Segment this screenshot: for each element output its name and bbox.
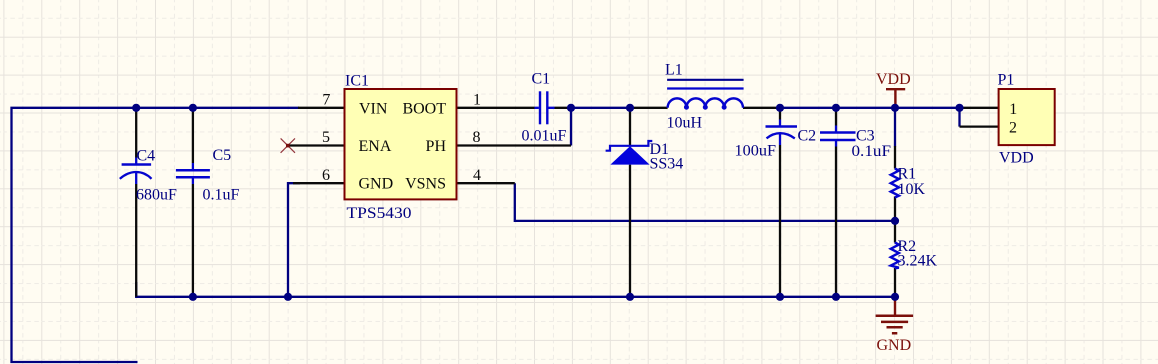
svg-text:C2: C2 — [798, 128, 817, 145]
junction GND symbol node — [891, 293, 899, 301]
svg-text:VSNS: VSNS — [405, 176, 446, 193]
svg-text:8: 8 — [473, 129, 481, 146]
svg-text:6: 6 — [322, 167, 330, 184]
junction D1 bottom — [626, 293, 634, 301]
pin 6 GND pin line — [293, 182, 345, 184]
capacitor C2 polarized — [735, 120, 817, 160]
junction D1 top — [626, 104, 634, 112]
pin C3 bottom lead — [835, 147, 837, 297]
capacitor C4 polarized — [120, 148, 177, 204]
junction GND branch bottom — [284, 293, 292, 301]
pin P1 pin2 line — [960, 126, 999, 128]
svg-text:C5: C5 — [213, 147, 232, 164]
svg-text:4: 4 — [473, 167, 481, 184]
svg-text:7: 7 — [322, 91, 330, 108]
svg-text:3.24K: 3.24K — [898, 253, 938, 270]
junction C2 top — [776, 104, 784, 112]
svg-text:IC1: IC1 — [345, 73, 369, 90]
svg-text:2: 2 — [1009, 119, 1017, 136]
pin D1 cathode lead — [629, 108, 631, 146]
power VDD symbol — [876, 71, 911, 108]
svg-text:100uF: 100uF — [735, 143, 777, 160]
svg-text:C3: C3 — [856, 128, 875, 145]
svg-text:P1: P1 — [998, 72, 1015, 89]
wire riser from PH pin 8 up to C1 junction — [570, 108, 572, 146]
pin R2 bottom lead — [894, 268, 896, 297]
svg-text:R1: R1 — [898, 166, 917, 183]
capacitor C5 — [176, 147, 240, 204]
junction C5 top — [189, 104, 197, 112]
junction feedback node — [891, 217, 899, 225]
pin L1 right lead — [743, 107, 780, 109]
pin C2 top lead — [779, 108, 781, 120]
svg-text:VDD: VDD — [876, 71, 911, 88]
pin R2 top lead — [894, 221, 896, 243]
capacitor C3 — [820, 126, 891, 161]
svg-text:0.1uF: 0.1uF — [852, 143, 892, 160]
junction C4 top — [132, 104, 140, 112]
ground GND symbol — [876, 297, 914, 354]
svg-text:C4: C4 — [137, 148, 156, 165]
wire bottom ground bus — [136, 282, 895, 297]
svg-text:1: 1 — [473, 91, 481, 108]
svg-text:C1: C1 — [532, 71, 551, 88]
pin C4 bottom lead — [135, 184, 137, 297]
pin P1 pin1 line — [960, 107, 999, 109]
pin R1 bottom lead — [894, 197, 896, 221]
resistor R2 — [891, 238, 938, 270]
svg-text:VDD: VDD — [999, 150, 1034, 167]
pin 8 PH pin line — [457, 144, 572, 146]
IC IC1 TPS5430 body — [322, 73, 481, 223]
inductor L1 — [665, 62, 744, 132]
junction C2 bottom — [776, 293, 784, 301]
svg-text:680uF: 680uF — [136, 187, 177, 204]
wire GND branch from IC pin 6 — [288, 183, 300, 297]
pin D1 anode lead — [629, 165, 631, 297]
svg-text:GND: GND — [877, 337, 912, 354]
svg-text:TPS5430: TPS5430 — [347, 205, 412, 222]
svg-text:BOOT: BOOT — [402, 100, 446, 117]
wire C1 right plate to junction — [555, 107, 572, 109]
pin 1 BOOT pin line to C1 — [457, 107, 535, 109]
svg-text:0.01uF: 0.01uF — [522, 128, 567, 145]
diode D1 schottky — [606, 141, 684, 173]
wire feedback from VSNS to R1/R2 node — [515, 183, 895, 221]
svg-text:SS34: SS34 — [650, 156, 684, 173]
junction C3 bottom — [832, 293, 840, 301]
pin L1 left lead — [630, 107, 668, 109]
pin C5 bottom lead — [192, 184, 194, 297]
pin C5 top lead — [192, 108, 194, 163]
svg-text:10K: 10K — [898, 181, 926, 198]
svg-text:GND: GND — [359, 176, 394, 193]
pin R1 top lead — [894, 146, 896, 169]
wire switch node C1 junction to D1 — [571, 107, 630, 109]
svg-text:PH: PH — [426, 138, 447, 155]
pin 4 VSNS pin line — [457, 182, 515, 184]
svg-text:5: 5 — [322, 129, 330, 146]
junction VDD node — [891, 104, 899, 112]
wire output node down to R1 — [894, 108, 896, 147]
no-ERC marker on pin 5 — [281, 138, 295, 152]
junction C5 bottom — [189, 293, 197, 301]
connector P1 — [998, 72, 1055, 167]
pin C4 top lead — [135, 108, 137, 158]
pin 7 VIN pin line — [298, 107, 345, 109]
wire riser shorting P1 pin1 and pin2 — [958, 108, 960, 127]
junction C1 right — [567, 104, 575, 112]
pin C3 top lead — [835, 108, 837, 126]
pin C2 bottom lead — [779, 145, 781, 297]
svg-text:10uH: 10uH — [667, 115, 703, 132]
svg-text:0.1uF: 0.1uF — [203, 187, 240, 204]
junction P1 riser — [955, 104, 963, 112]
svg-text:ENA: ENA — [359, 138, 392, 155]
resistor R1 — [891, 166, 926, 199]
junction C3 top — [832, 104, 840, 112]
svg-text:1: 1 — [1009, 101, 1017, 118]
capacitor C1 — [522, 71, 567, 145]
svg-text:VIN: VIN — [359, 100, 388, 117]
wire output rail C2 to P1 riser — [780, 107, 960, 109]
wire input net: top rail, left drop and bottom stub — [12, 108, 300, 362]
svg-text:L1: L1 — [665, 62, 683, 79]
pin 5 ENA pin line — [288, 144, 345, 146]
